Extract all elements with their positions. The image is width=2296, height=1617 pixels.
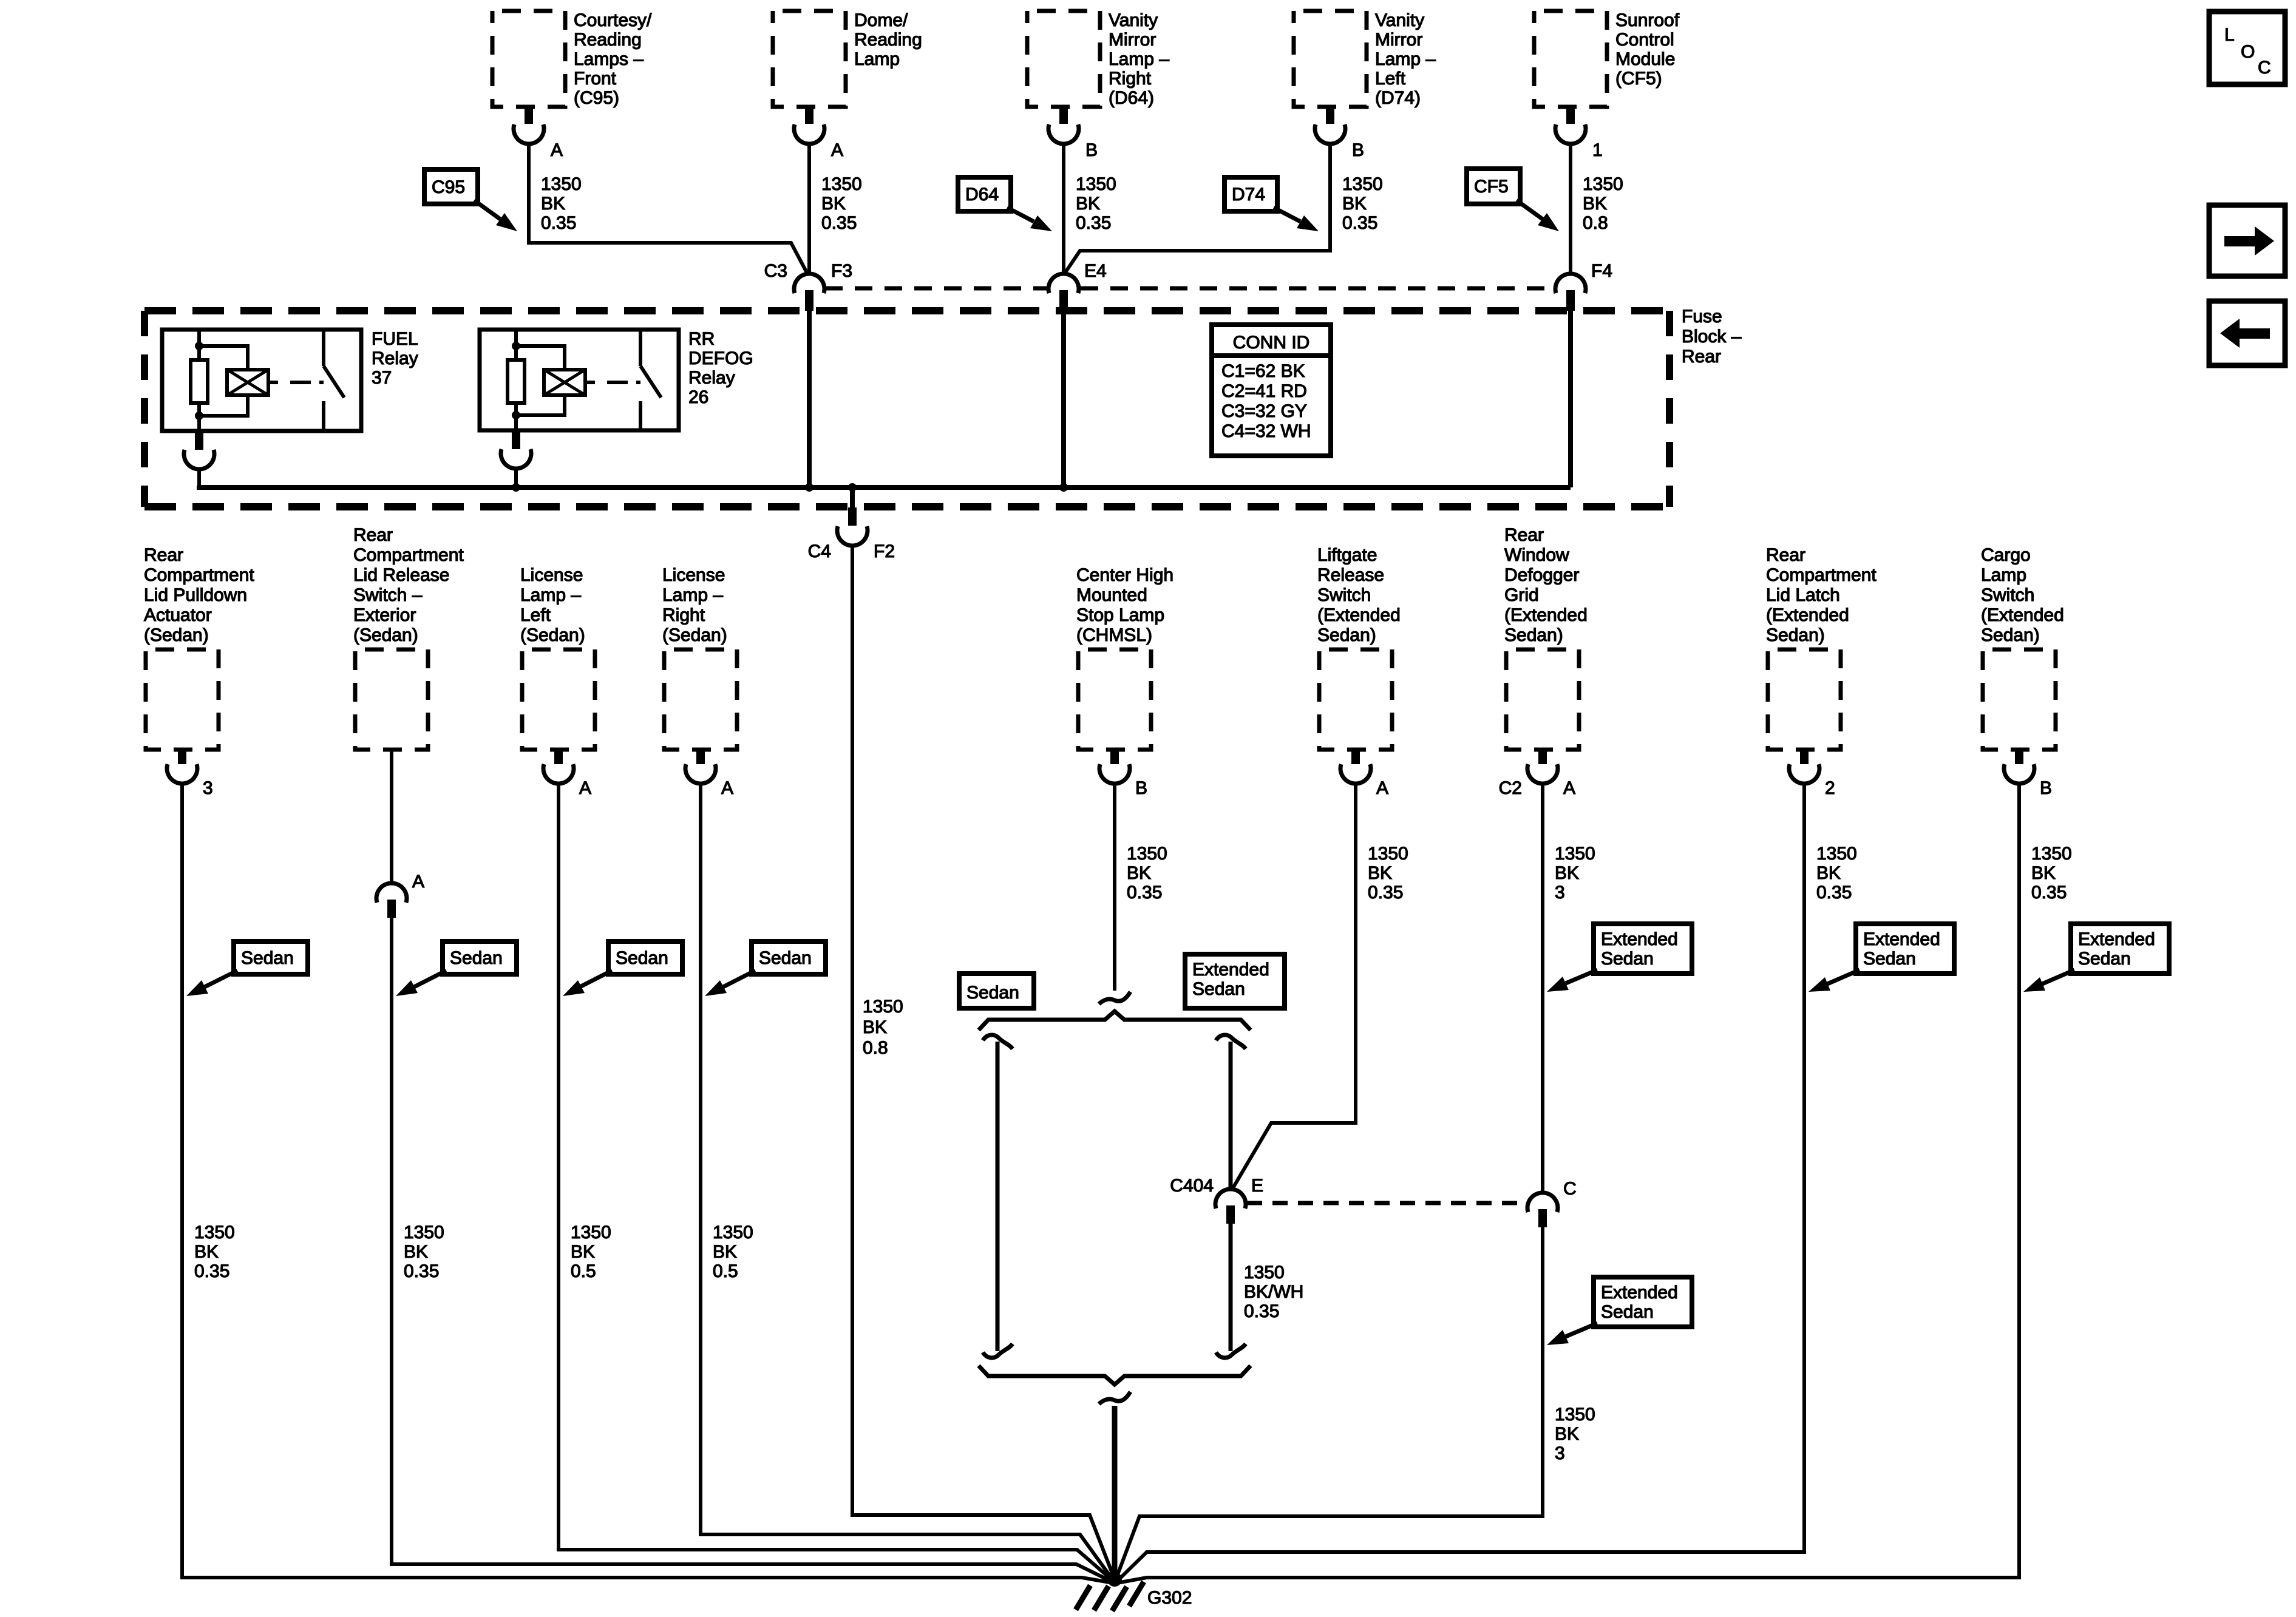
label C3	[764, 261, 787, 281]
pin label 2 (lid latch)	[1825, 778, 1835, 798]
wire liftgate release switch to C404 E	[1233, 784, 1356, 1188]
svg-text:(Sedan): (Sedan)	[353, 625, 418, 645]
wire defogger grid to G302	[1116, 1227, 1543, 1579]
svg-text:1350: 1350	[541, 174, 582, 194]
ground point G302 junction	[1107, 1572, 1122, 1587]
svg-text:FUEL: FUEL	[372, 329, 418, 349]
svg-text:Relay: Relay	[372, 348, 418, 368]
fuse block - rear dashed border	[144, 311, 1669, 507]
wire label 1350 BK 0.35 (CHMSL)	[1127, 844, 1167, 903]
label CF5 name	[1615, 10, 1680, 89]
svg-text:A: A	[551, 140, 563, 160]
svg-text:1350: 1350	[194, 1222, 235, 1242]
svg-text:Sedan): Sedan)	[1981, 625, 2040, 645]
wire FUEL relay to ground bus	[197, 468, 201, 487]
wire label 1350 BK 3 (defogger upper)	[1555, 844, 1595, 903]
relay FUEL Relay 37 box	[162, 330, 361, 431]
svg-text:C2: C2	[1499, 778, 1522, 798]
locator LOC box	[2209, 12, 2285, 84]
component box D74 (Vanity Mirror Lamp – Left (D74))	[1294, 11, 1367, 107]
break symbol above brace	[1099, 992, 1130, 1004]
label Rear Window Defogger Grid (Extended Sedan)	[1504, 525, 1588, 645]
svg-text:Lamp –: Lamp –	[520, 585, 581, 605]
svg-text:(D64): (D64)	[1109, 88, 1154, 108]
break symbol below brace	[1099, 1392, 1130, 1404]
svg-text:B: B	[1135, 778, 1147, 798]
svg-text:F4: F4	[1591, 261, 1612, 281]
svg-text:D64: D64	[965, 185, 999, 205]
svg-text:Release: Release	[1317, 565, 1384, 585]
svg-text:Sedan: Sedan	[616, 948, 668, 968]
wire license lamp right to G302	[701, 784, 1113, 1581]
svg-text:Vanity: Vanity	[1375, 10, 1424, 30]
svg-text:B: B	[2040, 778, 2052, 798]
connector pins C2/A of defogger grid	[1527, 751, 1558, 784]
wire lid pulldown actuator to G302	[182, 784, 1113, 1583]
svg-text:Rear: Rear	[1504, 525, 1544, 545]
svg-text:1350: 1350	[863, 997, 903, 1017]
svg-text:Switch –: Switch –	[353, 585, 423, 605]
svg-text:BK: BK	[1583, 194, 1607, 214]
svg-text:37: 37	[372, 368, 392, 388]
label Liftgate Release Switch (Extended Sedan)	[1317, 545, 1401, 645]
pin label A (defogger)	[1563, 778, 1575, 798]
svg-text:CONN ID: CONN ID	[1233, 333, 1310, 353]
component box License Lamp - Left (Sedan)	[522, 649, 595, 750]
svg-text:BK: BK	[1555, 1424, 1579, 1444]
wire label 1350 BK 3 (defogger lower)	[1555, 1405, 1595, 1463]
resistor in FUEL relay	[191, 360, 208, 403]
label FUEL Relay 37	[372, 329, 418, 388]
svg-text:Lid Pulldown: Lid Pulldown	[144, 585, 247, 605]
callout Sedan (lid release)	[396, 941, 517, 996]
svg-text:Switch: Switch	[1317, 585, 1371, 605]
label RR DEFOG Relay 26	[688, 329, 753, 407]
component box Rear Compartment Lid Release Switch - Exterior (Sedan)	[355, 649, 428, 750]
svg-text:0.35: 0.35	[194, 1261, 229, 1281]
svg-text:Window: Window	[1504, 545, 1569, 565]
label License Lamp - Right (Sedan)	[662, 565, 727, 645]
svg-text:A: A	[1376, 778, 1388, 798]
callout D64 with arrow	[958, 177, 1052, 231]
svg-text:Grid: Grid	[1504, 585, 1539, 605]
label E	[1251, 1176, 1263, 1196]
svg-text:Left: Left	[1375, 69, 1406, 89]
wire RR DEFOG coil branch	[516, 346, 565, 415]
svg-text:Lamp: Lamp	[1981, 565, 2026, 585]
svg-text:Block –: Block –	[1682, 327, 1742, 347]
svg-text:Left: Left	[520, 605, 551, 625]
svg-text:Actuator: Actuator	[144, 605, 212, 625]
ground bus inside fuse block	[199, 486, 1571, 487]
wire label 1350 BK 0.35 (liftgate)	[1368, 844, 1408, 903]
wire D74 pin B to E4	[1065, 144, 1330, 273]
svg-text:C3: C3	[764, 261, 787, 281]
svg-text:C95: C95	[432, 177, 465, 197]
callout Sedan (license left)	[563, 941, 682, 996]
connector pin 1 of CF5	[1555, 108, 1586, 144]
svg-text:B: B	[1085, 140, 1098, 160]
svg-text:Sedan: Sedan	[1601, 1302, 1654, 1322]
wire RR DEFOG relay to ground bus	[514, 467, 518, 487]
sedan branch bar	[983, 1035, 1013, 1358]
svg-text:Vanity: Vanity	[1109, 10, 1158, 30]
dashed actuation link FUEL	[268, 381, 324, 384]
component box Center High Mounted Stop Lamp (CHMSL)	[1078, 649, 1151, 750]
pin label A	[831, 140, 843, 160]
junction dot E4 at bus	[1059, 483, 1068, 492]
callout Extended Sedan (lid latch)	[1809, 924, 1954, 992]
label C	[1563, 1179, 1577, 1199]
svg-text:BK: BK	[863, 1017, 887, 1037]
svg-text:Control: Control	[1615, 30, 1674, 50]
svg-text:0.35: 0.35	[1816, 883, 1852, 903]
svg-text:C2=41 RD: C2=41 RD	[1221, 381, 1307, 401]
svg-text:C4=32 WH: C4=32 WH	[1221, 421, 1311, 441]
prev-page left arrow box	[2209, 301, 2285, 365]
connector C4/F2 below fuse block	[837, 487, 868, 546]
connector pin of FUEL relay	[184, 431, 214, 469]
svg-text:1350: 1350	[571, 1222, 611, 1242]
svg-text:BK: BK	[1342, 194, 1367, 214]
svg-text:E: E	[1251, 1176, 1263, 1196]
svg-text:A: A	[721, 778, 733, 798]
svg-text:Lid Release: Lid Release	[353, 565, 449, 585]
svg-text:Dome/: Dome/	[854, 10, 908, 30]
connector C of defogger at C404	[1527, 1193, 1558, 1227]
svg-text:B: B	[1352, 140, 1364, 160]
connector F4 at fuse block	[1555, 274, 1586, 311]
ground symbol G302 hatches	[1076, 1582, 1144, 1611]
svg-text:1350: 1350	[1555, 1405, 1595, 1425]
svg-text:CF5: CF5	[1474, 177, 1509, 197]
wire lid latch to G302	[1117, 784, 1804, 1581]
pin label B (cargo)	[2040, 778, 2052, 798]
svg-text:BK: BK	[571, 1242, 595, 1262]
wire RR DEFOG internal vertical	[514, 330, 518, 430]
label E4	[1084, 261, 1107, 281]
component box Rear Window Defogger Grid (Extended Sedan)	[1506, 649, 1579, 750]
label Cargo Lamp Switch (Extended Sedan)	[1981, 545, 2064, 645]
svg-text:0.35: 0.35	[541, 213, 576, 233]
pin label A (license left)	[579, 778, 591, 798]
svg-text:Lamp –: Lamp –	[662, 585, 723, 605]
svg-text:(CF5): (CF5)	[1615, 69, 1662, 89]
svg-text:Defogger: Defogger	[1504, 565, 1579, 585]
callout CF5 with arrow	[1467, 169, 1559, 231]
svg-text:(CHMSL): (CHMSL)	[1076, 625, 1152, 645]
svg-text:Mirror: Mirror	[1375, 30, 1422, 50]
pin label C2	[1499, 778, 1522, 798]
wire F4 down to bus	[1568, 311, 1573, 487]
svg-text:(D74): (D74)	[1375, 88, 1421, 108]
extended sedan branch bar upper	[1216, 1035, 1246, 1189]
label G302	[1147, 1588, 1192, 1608]
svg-text:Rear: Rear	[353, 525, 393, 545]
wire label 1350 BK 0.35 (lid latch)	[1816, 844, 1857, 903]
svg-text:Compartment: Compartment	[1766, 565, 1877, 585]
wire D64 pin B to E4	[1062, 144, 1065, 274]
callout Extended Sedan (defogger lower)	[1547, 1277, 1692, 1345]
callout Sedan (license right)	[705, 941, 826, 996]
connector C3/F3 at fuse block	[794, 274, 824, 311]
label Rear Compartment Lid Release Switch - Exterior (Sedan)	[353, 525, 464, 645]
svg-text:BK: BK	[541, 194, 565, 214]
component box DOME (Dome/ Reading Lamp)	[773, 11, 846, 107]
connector A of lid release switch	[376, 883, 407, 918]
pin label B	[1085, 140, 1098, 160]
wire license lamp left to G302	[559, 784, 1113, 1581]
label D64 name	[1109, 10, 1169, 108]
wire label 1350 BK 0.5 (license left)	[571, 1222, 611, 1281]
junction dot FUEL top	[195, 342, 203, 350]
wire cargo lamp switch to G302	[1117, 784, 2019, 1583]
svg-text:Lamp –: Lamp –	[1109, 49, 1169, 69]
svg-text:C4: C4	[808, 541, 831, 561]
svg-text:Reading: Reading	[574, 30, 642, 50]
svg-text:Sedan: Sedan	[241, 948, 294, 968]
svg-text:DEFOG: DEFOG	[688, 348, 753, 368]
svg-text:2: 2	[1825, 778, 1835, 798]
wire label 1350/BK/0.35 at C95	[541, 174, 582, 233]
svg-text:(Extended: (Extended	[1504, 605, 1588, 625]
svg-text:O: O	[2241, 42, 2255, 62]
switch contact in RR DEFOG relay	[640, 331, 661, 430]
svg-text:A: A	[1563, 778, 1575, 798]
component box Rear Compartment Lid Latch (Extended Sedan)	[1768, 649, 1841, 750]
svg-text:Extended: Extended	[1601, 1283, 1678, 1303]
svg-text:Sedan: Sedan	[1863, 949, 1916, 969]
CONN ID table	[1212, 325, 1331, 456]
wire FUEL coil branch	[199, 346, 248, 416]
svg-text:License: License	[520, 565, 583, 585]
svg-text:Lamps –: Lamps –	[574, 49, 644, 69]
svg-text:Front: Front	[574, 69, 617, 89]
wire label 1350/BK/0.8 at CF5	[1583, 174, 1623, 233]
svg-text:0.35: 0.35	[1244, 1301, 1279, 1321]
svg-text:L: L	[2224, 25, 2235, 45]
svg-text:BK: BK	[1368, 863, 1392, 883]
svg-text:Sedan): Sedan)	[1317, 625, 1376, 645]
svg-text:A: A	[412, 872, 424, 892]
svg-text:Reading: Reading	[854, 30, 922, 50]
wire label 1350/BK/0.35 at DOME	[821, 174, 862, 233]
svg-text:1: 1	[1592, 140, 1603, 160]
svg-text:Mounted: Mounted	[1076, 585, 1147, 605]
svg-text:Sedan): Sedan)	[1504, 625, 1563, 645]
junction dot FUEL bottom	[195, 412, 203, 420]
label Rear Compartment Lid Latch (Extended Sedan)	[1766, 545, 1877, 645]
label F2	[874, 541, 895, 561]
component box Liftgate Release Switch (Extended Sedan)	[1319, 649, 1392, 750]
svg-text:3: 3	[1555, 883, 1565, 903]
dashed line C404 E to C	[1247, 1201, 1529, 1205]
label License Lamp - Left (Sedan)	[520, 565, 585, 645]
svg-text:(Extended: (Extended	[1317, 605, 1401, 625]
svg-text:1350: 1350	[1127, 844, 1167, 864]
label D74 name	[1375, 10, 1436, 108]
svg-text:E4: E4	[1084, 261, 1107, 281]
wire extended sedan branch lower	[1216, 1224, 1246, 1358]
junction dot RR DEFOG bottom	[512, 411, 520, 419]
svg-text:License: License	[662, 565, 725, 585]
label Center High Mounted Stop Lamp (CHMSL)	[1076, 565, 1173, 645]
svg-text:F3: F3	[831, 261, 852, 281]
svg-text:Relay: Relay	[688, 368, 735, 388]
svg-text:Right: Right	[1109, 69, 1152, 89]
svg-text:1350: 1350	[1244, 1263, 1285, 1283]
svg-text:C1=62 BK: C1=62 BK	[1221, 361, 1305, 381]
label F3	[831, 261, 852, 281]
svg-text:1350: 1350	[1555, 844, 1595, 864]
svg-text:D74: D74	[1232, 185, 1265, 205]
svg-text:1350: 1350	[821, 174, 862, 194]
label C404	[1170, 1176, 1214, 1196]
wire label 1350 BK/WH 0.35	[1244, 1263, 1303, 1321]
connector pin 2 of lid latch	[1789, 751, 1819, 784]
connector pin B of CHMSL	[1099, 751, 1130, 784]
svg-text:0.5: 0.5	[713, 1261, 738, 1281]
svg-text:Center High: Center High	[1076, 565, 1173, 585]
svg-text:Module: Module	[1615, 49, 1675, 69]
wire CHMSL down to brace	[1113, 784, 1116, 991]
wire label 1350 BK 0.35 (lid release)	[404, 1222, 444, 1281]
svg-text:Extended: Extended	[1863, 929, 1940, 949]
svg-text:1350: 1350	[713, 1222, 753, 1242]
junction dot RR DEFOG top	[512, 342, 520, 350]
component box License Lamp - Right (Sedan)	[664, 649, 737, 750]
svg-text:1350: 1350	[404, 1222, 444, 1242]
svg-text:3: 3	[203, 778, 213, 798]
svg-text:1350: 1350	[1076, 174, 1116, 194]
svg-text:Sunroof: Sunroof	[1615, 10, 1680, 30]
svg-text:Compartment: Compartment	[144, 565, 254, 585]
wire label 1350 BK 0.5 (license right)	[713, 1222, 753, 1281]
svg-text:Lamp: Lamp	[854, 49, 900, 69]
svg-text:C404: C404	[1170, 1176, 1214, 1196]
pin label A	[551, 140, 563, 160]
svg-text:Sedan: Sedan	[450, 948, 503, 968]
component box Rear Compartment Lid Pulldown Actuator (Sedan)	[146, 649, 219, 750]
wire E4 down to bus	[1061, 311, 1066, 487]
svg-text:Right: Right	[662, 605, 705, 625]
svg-text:0.35: 0.35	[1076, 213, 1111, 233]
component box D64 (Vanity Mirror Lamp – Right (D64))	[1027, 11, 1100, 107]
svg-text:0.8: 0.8	[1583, 213, 1608, 233]
label C4	[808, 541, 831, 561]
junction dot F3 at bus	[805, 483, 813, 492]
connector pin A of C95	[514, 108, 544, 144]
label DOME name	[854, 10, 922, 69]
svg-text:Courtesy/: Courtesy/	[574, 10, 652, 30]
svg-text:(C95): (C95)	[574, 88, 619, 108]
svg-text:0.35: 0.35	[404, 1261, 439, 1281]
pin label 3	[203, 778, 213, 798]
wire label 1350 BK 0.8 (C4/F2)	[863, 997, 903, 1058]
relay RR DEFOG Relay 26 box	[480, 330, 679, 430]
svg-text:A: A	[579, 778, 591, 798]
svg-text:Liftgate: Liftgate	[1317, 545, 1377, 565]
wire FUEL relay internal vertical	[197, 330, 201, 431]
svg-text:0.35: 0.35	[2031, 883, 2067, 903]
junction dot RR DEFOG at bus	[512, 483, 520, 492]
svg-text:(Sedan): (Sedan)	[144, 625, 209, 645]
wire lid release switch upper segment	[390, 750, 393, 883]
svg-text:F2: F2	[874, 541, 895, 561]
switch contact in FUEL relay	[324, 331, 344, 431]
connector pin of RR DEFOG relay	[501, 430, 531, 469]
callout Extended Sedan (cargo)	[2023, 924, 2169, 992]
connector pin B of D74	[1315, 108, 1345, 144]
svg-text:Extended: Extended	[1192, 960, 1269, 980]
svg-text:1350: 1350	[1342, 174, 1383, 194]
svg-text:Sedan: Sedan	[1601, 949, 1654, 969]
svg-text:Rear: Rear	[1766, 545, 1805, 565]
label Rear Compartment Lid Pulldown Actuator (Sedan)	[144, 545, 254, 645]
svg-text:3: 3	[1555, 1443, 1565, 1463]
svg-text:Fuse: Fuse	[1682, 307, 1722, 327]
connector pin B of cargo lamp switch	[2004, 751, 2034, 784]
svg-text:C: C	[2258, 58, 2271, 78]
component box CF5 (Sunroof Control Module (CF5))	[1534, 11, 1607, 107]
component box C95 (Courtesy/ Reading Lamps – Front (C95))	[492, 11, 565, 107]
svg-text:1350: 1350	[2031, 844, 2072, 864]
connector pin A of liftgate release switch	[1340, 751, 1371, 784]
junction dot C4 exit at bus	[848, 483, 857, 492]
svg-text:Lid Latch: Lid Latch	[1766, 585, 1840, 605]
wire CF5 pin 1 to F4	[1569, 144, 1572, 274]
pin label A (lid release)	[412, 872, 424, 892]
connector pin 3 of lid pulldown actuator	[167, 751, 197, 784]
pin label 1	[1592, 140, 1603, 160]
connector pin B of D64	[1048, 108, 1079, 144]
label C95 name	[574, 10, 652, 108]
svg-text:Rear: Rear	[1682, 347, 1721, 367]
svg-text:BK: BK	[1816, 863, 1841, 883]
svg-text:Switch: Switch	[1981, 585, 2034, 605]
callout D74 with arrow	[1224, 177, 1319, 231]
coil (solenoid) of RR DEFOG relay	[544, 370, 585, 395]
svg-text:Stop Lamp: Stop Lamp	[1076, 605, 1164, 625]
svg-text:(Sedan): (Sedan)	[520, 625, 585, 645]
callout Sedan (lid pulldown)	[186, 941, 308, 996]
svg-text:(Extended: (Extended	[1766, 605, 1849, 625]
svg-text:Sedan): Sedan)	[1766, 625, 1825, 645]
callout Sedan (brace)	[959, 974, 1034, 1008]
svg-text:26: 26	[688, 387, 708, 407]
ground wire to G302	[1112, 1406, 1118, 1581]
svg-text:0.35: 0.35	[1127, 883, 1162, 903]
svg-text:1350: 1350	[1368, 844, 1408, 864]
callout Extended Sedan (brace)	[1185, 954, 1285, 1008]
dashed actuation link RR DEFOG	[585, 381, 640, 384]
svg-text:A: A	[831, 140, 843, 160]
svg-text:Lamp –: Lamp –	[1375, 49, 1436, 69]
svg-text:RR: RR	[688, 329, 715, 349]
pin label B	[1352, 140, 1364, 160]
svg-text:Compartment: Compartment	[353, 545, 464, 565]
connector C404 E	[1215, 1189, 1246, 1224]
svg-text:0.35: 0.35	[821, 213, 857, 233]
dotted connector line F3-E4-F4	[825, 286, 1555, 291]
svg-text:Exterior: Exterior	[353, 605, 416, 625]
svg-text:G302: G302	[1147, 1588, 1192, 1608]
svg-text:Sedan: Sedan	[759, 948, 812, 968]
svg-text:Sedan: Sedan	[2078, 949, 2131, 969]
svg-text:Sedan: Sedan	[966, 983, 1019, 1003]
callout C95 with arrow	[424, 169, 517, 231]
svg-text:0.8: 0.8	[863, 1038, 888, 1058]
